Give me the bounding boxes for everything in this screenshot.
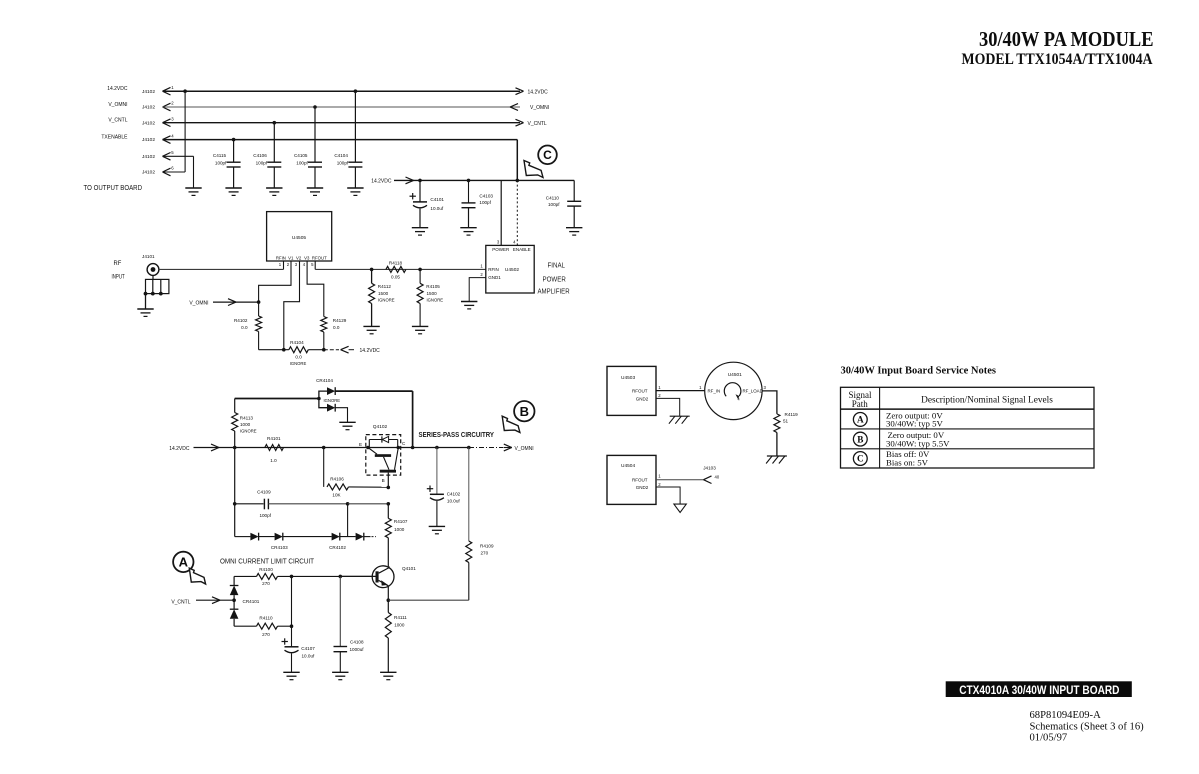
ground R4112	[363, 325, 379, 327]
wire J4101 shell to ground	[145, 294, 147, 309]
resistor R4102 0.0	[258, 302, 260, 316]
svg-text:TO OUTPUT BOARD: TO OUTPUT BOARD	[84, 183, 143, 192]
wire TXENABLE vertical drop	[516, 140, 518, 181]
arrow 14.2VDC right	[516, 88, 524, 91]
junction R4105 tap	[418, 268, 422, 272]
svg-text:IGNORE: IGNORE	[290, 361, 307, 366]
diode CR4104 upper	[319, 391, 327, 398]
resistor R4101 1.0	[265, 445, 284, 451]
svg-text:1000uf: 1000uf	[350, 647, 365, 652]
table row A marker	[853, 413, 867, 427]
svg-text:J4102: J4102	[142, 105, 155, 111]
junction Q4102 emitter node	[366, 446, 370, 450]
chassis ground U4503	[670, 415, 690, 417]
signal path arrow B pointer	[502, 416, 520, 432]
signal path marker C	[538, 146, 557, 165]
wire limit top rail	[278, 575, 372, 577]
junction C4102 tap	[435, 446, 439, 450]
ground C4104	[347, 187, 363, 189]
svg-text:GND2: GND2	[636, 396, 649, 401]
junction CR4104 split	[317, 397, 321, 401]
svg-text:C4107: C4107	[301, 646, 315, 651]
wire U4505 pin3 V2 drop	[284, 261, 300, 350]
svg-text:MODEL TTX1054A/TTX1004A: MODEL TTX1054A/TTX1004A	[962, 51, 1154, 68]
svg-text:30/40W: typ 5V: 30/40W: typ 5V	[886, 418, 943, 428]
wire bias bottom rail	[259, 349, 289, 351]
svg-text:INPUT: INPUT	[112, 273, 125, 280]
chassis ground R4119	[767, 455, 787, 457]
junction C4103	[467, 179, 471, 183]
svg-text:IGNORE: IGNORE	[324, 398, 341, 403]
junction C4115 tap	[232, 138, 236, 142]
svg-text:RF_LOAD: RF_LOAD	[743, 389, 763, 394]
svg-text:10.0uf: 10.0uf	[430, 206, 443, 211]
svg-text:100pf: 100pf	[256, 161, 268, 166]
svg-text:J4102: J4102	[142, 137, 155, 143]
svg-text:10K: 10K	[332, 493, 341, 498]
svg-text:V_CNTL: V_CNTL	[528, 121, 547, 127]
svg-text:100pf: 100pf	[296, 161, 308, 166]
connector J4101 shell	[152, 275, 154, 279]
capacitor C4102 10.0uf	[436, 448, 438, 495]
resistor R4113 1000 IGNORE	[234, 399, 236, 413]
svg-text:C: C	[857, 454, 864, 464]
wire TXENABLE row 4 to ENABLE drop	[163, 139, 518, 141]
svg-text:1.0: 1.0	[270, 458, 277, 463]
svg-text:Path: Path	[852, 399, 869, 409]
ground C4110	[566, 227, 582, 229]
svg-text:POWER: POWER	[543, 275, 566, 284]
svg-text:J4103: J4103	[703, 465, 716, 470]
junction bias rail left	[282, 348, 286, 352]
svg-text:RFIN: RFIN	[488, 267, 499, 272]
wire ENABLE node to C4110	[517, 179, 574, 181]
resistor R4106 10K	[323, 448, 325, 487]
junction base / R4107	[387, 502, 391, 506]
svg-text:V_CNTL: V_CNTL	[108, 118, 127, 124]
capacitor C4101 10.0uf	[419, 180, 421, 202]
junction row1/pin6 tie	[183, 89, 187, 93]
svg-text:CTX4010A 30/40W INPUT BOARD: CTX4010A 30/40W INPUT BOARD	[959, 683, 1120, 697]
svg-text:R4102: R4102	[234, 318, 248, 323]
capacitor C4115 100pf	[233, 140, 235, 163]
svg-text:V_OMNI: V_OMNI	[515, 446, 534, 452]
svg-text:R4129: R4129	[333, 318, 347, 323]
svg-text:B: B	[382, 478, 385, 483]
svg-text:R4112: R4112	[378, 284, 392, 289]
svg-text:C4104: C4104	[334, 153, 348, 158]
svg-text:V_OMNI: V_OMNI	[108, 102, 127, 108]
junction R4109 tap	[467, 446, 471, 450]
svg-text:10.0uf: 10.0uf	[447, 499, 460, 504]
ground R4105	[412, 325, 428, 327]
wire V_OMNI bus row 2	[163, 106, 521, 108]
arrow V_CNTL right	[516, 119, 524, 122]
svg-text:Q4102: Q4102	[373, 424, 388, 430]
junction R4112 tap	[370, 268, 374, 272]
svg-text:V3: V3	[304, 255, 310, 260]
wire U4505 pin1 stub	[283, 261, 285, 269]
wire U4503 RFOUT to circulator	[656, 390, 704, 392]
svg-text:OMNI CURRENT LIMIT CIRCUIT: OMNI CURRENT LIMIT CIRCUIT	[220, 557, 315, 566]
resistor R4111 1000	[387, 600, 389, 612]
svg-text:R4100: R4100	[259, 567, 273, 572]
wire Q4101 collector	[388, 566, 390, 568]
svg-text:B: B	[520, 404, 529, 419]
svg-text:J4102: J4102	[142, 120, 155, 126]
capacitor C4108 1000uf	[339, 576, 341, 646]
svg-text:1000: 1000	[240, 422, 251, 427]
resistor R4110 270	[234, 625, 256, 627]
svg-text:1000: 1000	[394, 623, 405, 628]
IC U4504 detector	[607, 455, 656, 504]
wire series-pass main rail	[194, 447, 470, 449]
svg-text:100pf: 100pf	[337, 161, 349, 166]
ground GND1	[461, 301, 477, 303]
svg-text:J4102: J4102	[142, 89, 155, 95]
junction Q4102 base / R4106	[387, 486, 391, 490]
capacitor C4110 100pf	[573, 180, 575, 201]
junction ENABLE node	[516, 179, 520, 183]
junction R4113 node	[233, 446, 237, 450]
wire U4505 pin2 V1 to V_OMNI node	[259, 261, 291, 302]
svg-text:POWER: POWER	[492, 247, 510, 252]
table row C marker	[853, 452, 867, 466]
svg-text:C4110: C4110	[546, 195, 560, 200]
ground J4101	[137, 308, 153, 310]
wire U4505 pin5 stub	[314, 261, 316, 269]
svg-text:U4501: U4501	[728, 372, 742, 378]
junction C4105 tap	[313, 105, 317, 109]
svg-text:100pf: 100pf	[548, 202, 560, 207]
svg-text:V2: V2	[296, 255, 302, 260]
capacitor C4106 100pf	[273, 123, 275, 163]
transistor Q4102 series pass (dashed outline)	[366, 435, 401, 476]
svg-text:1500: 1500	[427, 291, 438, 296]
svg-text:GND2: GND2	[636, 485, 649, 490]
wire RF input to U4505 RFIN	[159, 268, 284, 270]
signal path arrow A pointer	[189, 568, 205, 584]
svg-text:Bias on: 5V: Bias on: 5V	[886, 458, 929, 468]
svg-text:A: A	[857, 415, 864, 425]
wire base column left	[234, 448, 236, 537]
svg-text:RFOUT: RFOUT	[632, 477, 648, 482]
svg-text:CR4102: CR4102	[329, 545, 346, 550]
junction V_OMNI bias node	[257, 300, 261, 304]
diode CR4103 b	[275, 533, 283, 541]
svg-text:R4118: R4118	[389, 261, 403, 266]
svg-text:C4115: C4115	[213, 153, 227, 158]
svg-text:4: 4	[738, 398, 740, 402]
capacitor C4109 100pf	[235, 503, 264, 505]
capacitor C4105 100pf	[314, 107, 316, 162]
ground U4504 (triangle)	[674, 504, 686, 512]
svg-text:R4106: R4106	[330, 477, 344, 482]
junction C4109 row mid	[346, 502, 350, 506]
ground C4107	[283, 671, 299, 673]
capacitor C4107 10.0uf	[291, 576, 293, 646]
wire J4102 pin 5 to ground	[163, 155, 194, 157]
svg-text:V_OMNI: V_OMNI	[530, 105, 549, 111]
svg-text:SERIES-PASS CIRCUITRY: SERIES-PASS CIRCUITRY	[419, 432, 495, 439]
wire RFOUT to final PA RFIN	[315, 268, 486, 270]
svg-text:Description/Nominal Signal Lev: Description/Nominal Signal Levels	[921, 395, 1053, 405]
capacitor C4103 100pf	[468, 180, 470, 203]
svg-text:0.0: 0.0	[241, 325, 248, 330]
arrow V_OMNI out	[504, 444, 512, 447]
resistor R4104 0.0 IGNORE	[289, 347, 308, 353]
wire 14.2VDC bus row 1	[163, 90, 521, 92]
ground C4101	[412, 227, 428, 229]
capacitor C4104 100pf	[354, 91, 356, 162]
svg-text:14.2VDC: 14.2VDC	[169, 446, 190, 452]
svg-text:270: 270	[481, 551, 489, 556]
IC U4505 driver block	[267, 212, 332, 261]
svg-text:100pf: 100pf	[259, 513, 271, 518]
svg-text:0.05: 0.05	[391, 275, 400, 280]
svg-text:100pf: 100pf	[215, 161, 227, 166]
wire J4102 pin 6 tie to pin 1	[163, 171, 186, 173]
table row B marker	[853, 432, 867, 446]
svg-text:RFIN: RFIN	[276, 255, 286, 260]
resistor R4119 51	[774, 414, 780, 433]
svg-text:IGNORE: IGNORE	[378, 297, 395, 302]
wire 14.2VDC into bias rail	[324, 349, 339, 351]
resistor R4129 0.0	[321, 317, 327, 333]
svg-text:51: 51	[783, 419, 789, 424]
svg-text:J4101: J4101	[142, 254, 155, 259]
junction V_CNTL / CR4101	[232, 598, 236, 602]
svg-text:30/40W: typ 5.5V: 30/40W: typ 5.5V	[886, 438, 950, 448]
svg-text:10.0uf: 10.0uf	[302, 654, 315, 659]
svg-text:C4101: C4101	[430, 197, 444, 202]
svg-text:V1: V1	[288, 255, 294, 260]
svg-text:A: A	[179, 555, 189, 570]
svg-text:U4503: U4503	[621, 375, 635, 381]
wire C4109 row to base	[348, 503, 389, 505]
ground C4103	[460, 227, 476, 229]
svg-text:C: C	[543, 148, 552, 162]
svg-text:FINAL: FINAL	[548, 260, 566, 269]
svg-text:R4109: R4109	[480, 543, 494, 548]
svg-text:14.2VDC: 14.2VDC	[528, 89, 549, 95]
svg-text:270: 270	[262, 632, 270, 637]
junction R4110 / C4107 column	[290, 624, 294, 628]
wire V_OMNI arrow	[213, 301, 259, 303]
arrow 14.2VDC feed	[406, 177, 414, 180]
circulator U4501	[705, 362, 762, 419]
svg-text:14.2VDC: 14.2VDC	[371, 179, 392, 185]
wire to V_OMNI out (dash-dot)	[469, 447, 504, 449]
diode CR4104 lower	[319, 399, 327, 408]
svg-text:R4111: R4111	[394, 615, 407, 620]
svg-text:B: B	[857, 434, 863, 444]
service notes table frame	[841, 387, 1095, 468]
junction C4108 tap	[339, 575, 343, 579]
svg-text:270: 270	[262, 581, 270, 586]
svg-text:ENABLE: ENABLE	[513, 247, 531, 252]
svg-text:CR4104: CR4104	[316, 378, 333, 383]
wire CR4104 branch	[235, 398, 319, 400]
signal path arrow C pointer	[524, 161, 543, 178]
junction bias rail right	[322, 348, 326, 352]
diode CR4102 a	[332, 533, 340, 541]
svg-text:CR4103: CR4103	[271, 545, 288, 550]
arrow 14.2VDC bias	[341, 346, 349, 349]
Q4102 darlington bars	[375, 454, 391, 457]
svg-text:R4107: R4107	[394, 519, 408, 524]
svg-text:U4505: U4505	[292, 235, 306, 241]
svg-text:C4108: C4108	[350, 640, 364, 645]
svg-text:14.2VDC: 14.2VDC	[360, 348, 381, 354]
wire 14.2VDC feed	[394, 179, 517, 181]
svg-text:0.0: 0.0	[295, 354, 302, 359]
svg-text:R4104: R4104	[290, 340, 304, 345]
junction Q4102 collector node	[397, 446, 401, 450]
junction C4101	[418, 179, 422, 183]
svg-text:C4109: C4109	[257, 490, 271, 495]
arrow V_OMNI right (incoming)	[510, 104, 518, 107]
svg-text:01/05/97: 01/05/97	[1030, 733, 1068, 744]
svg-text:Q4101: Q4101	[402, 566, 416, 571]
wire R4110 to C4107	[278, 625, 292, 627]
ground C4106	[266, 187, 282, 189]
svg-text:J4102: J4102	[142, 170, 155, 176]
ground pin 5	[185, 187, 201, 189]
wire emitter rail to R4109	[388, 599, 469, 601]
circulator rotation symbol	[724, 383, 741, 397]
svg-text:C4105: C4105	[294, 153, 308, 158]
svg-text:C4103: C4103	[479, 193, 493, 198]
junction C4109 left	[233, 502, 237, 506]
svg-text:GND1: GND1	[488, 275, 501, 280]
wire V_CNTL bus row 3	[163, 122, 521, 124]
svg-text:V_CNTL: V_CNTL	[171, 599, 190, 605]
svg-text:J4102: J4102	[142, 154, 155, 160]
svg-text:R4105: R4105	[426, 284, 440, 289]
svg-text:0.0: 0.0	[333, 325, 340, 330]
wire base column to diode row	[347, 504, 349, 537]
wire Q4102 base drop	[387, 473, 389, 488]
signal path marker A	[173, 552, 193, 572]
wire Q4101 emitter drop	[387, 586, 389, 600]
svg-text:TXENABLE: TXENABLE	[101, 135, 128, 141]
diode CR4102 b	[356, 533, 364, 541]
svg-text:V_OMNI: V_OMNI	[189, 300, 208, 306]
svg-text:R4101: R4101	[267, 436, 281, 441]
svg-text:100pf: 100pf	[479, 200, 491, 205]
wire POWER pin drop	[500, 180, 502, 245]
svg-text:R4119: R4119	[785, 412, 799, 417]
ground C4105	[307, 187, 323, 189]
resistor R4118 0.05	[386, 266, 406, 272]
svg-text:RFOUT: RFOUT	[312, 255, 327, 260]
signal path marker B	[514, 401, 534, 421]
diode CR4103 a	[250, 533, 258, 541]
svg-text:IGNORE: IGNORE	[427, 297, 444, 302]
junction R4106 tap	[322, 446, 326, 450]
ground C4108	[332, 671, 348, 673]
IC U4503 detector	[607, 366, 656, 415]
svg-text:E: E	[359, 442, 362, 447]
resistor R4107 1000	[387, 504, 389, 519]
junction C4104 tap	[354, 89, 358, 93]
svg-text:Schematics (Sheet 3 of 16): Schematics (Sheet 3 of 16)	[1030, 722, 1145, 733]
svg-text:U4502: U4502	[505, 267, 519, 273]
svg-text:U4504: U4504	[621, 463, 635, 469]
svg-text:RFOUT: RFOUT	[632, 389, 648, 394]
svg-text:RF: RF	[114, 260, 122, 267]
junction C4106 tap	[273, 121, 277, 125]
ground C4102	[429, 525, 445, 527]
ground C4115	[225, 187, 241, 189]
svg-text:1500: 1500	[378, 291, 389, 296]
resistor R4112 1500 IGNORE	[371, 269, 373, 283]
svg-text:68P81094E09-A: 68P81094E09-A	[1030, 710, 1102, 721]
svg-text:40: 40	[715, 475, 720, 480]
svg-text:CR4101: CR4101	[243, 599, 260, 604]
svg-text:AMPLIFIER: AMPLIFIER	[538, 286, 570, 295]
ground CR4104 lower	[339, 421, 355, 423]
resistor R4105 1500 IGNORE	[419, 269, 421, 283]
svg-text:C4102: C4102	[447, 492, 461, 497]
wire GND1 to ground	[469, 278, 486, 302]
svg-text:14.2VDC: 14.2VDC	[107, 86, 128, 92]
svg-text:30/40W Input Board Service No: 30/40W Input Board Service Notes	[841, 365, 997, 377]
IC U4502 final power amplifier	[486, 245, 534, 293]
diode CR4101 lower	[233, 600, 235, 609]
Q4102 internal diode	[369, 439, 397, 441]
wire U4505 pin4 V3 drop	[307, 261, 324, 317]
junction pass output	[411, 446, 415, 450]
svg-text:RF_IN: RF_IN	[708, 389, 721, 394]
svg-text:30/40W PA MODULE: 30/40W PA MODULE	[979, 27, 1154, 51]
resistor R4100 270	[234, 575, 256, 577]
junction Q4101 emitter node	[387, 598, 391, 602]
svg-text:1000: 1000	[394, 527, 405, 532]
ground R4111	[380, 671, 396, 673]
svg-text:C4106: C4106	[253, 153, 267, 158]
svg-text:IGNORE: IGNORE	[240, 429, 257, 434]
diode CR4101 upper	[233, 576, 235, 585]
resistor R4109 270	[468, 448, 470, 542]
wire U4503 GND2	[656, 398, 680, 416]
wire ENABLE pin drop dashed	[516, 180, 518, 245]
junction C4107 tap	[290, 575, 294, 579]
wire CR4104 to pass output	[412, 391, 414, 447]
wire U4504 GND2	[656, 487, 680, 504]
wire diode row	[235, 536, 251, 538]
arrow 14.2VDC series	[211, 444, 219, 447]
wire V_CNTL arrow	[196, 599, 234, 601]
svg-text:R4110: R4110	[259, 616, 273, 621]
footer board label bar	[946, 681, 1132, 697]
transistor Q4101	[372, 566, 394, 588]
svg-text:R4113: R4113	[240, 416, 254, 421]
